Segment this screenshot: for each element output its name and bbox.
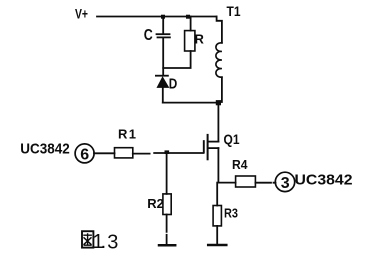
svg-text:R4: R4: [232, 157, 248, 172]
wire R3 bottom lead to ground: [216, 226, 218, 244]
svg-text:UC3842: UC3842: [295, 172, 353, 189]
resistor R4: [236, 176, 256, 187]
junction at R2 branch: [165, 150, 170, 154]
wire gate run after gap to Q1 gate: [154, 152, 203, 154]
resistor R3: [213, 206, 221, 226]
wire source node corner to R4: [218, 182, 235, 184]
junction on rail at capacitor C branch: [161, 15, 165, 19]
wire drain vertical from junction to Q1 drain tap: [217, 105, 219, 142]
resistor R: [185, 31, 195, 51]
svg-text:UC3842: UC3842: [20, 140, 70, 157]
wire T1 bottom lead: [221, 77, 223, 102]
label R: [195, 32, 205, 47]
wire capacitor bottom lead down to snubber node: [162, 38, 164, 75]
wire snubber resistor R top lead: [190, 17, 192, 31]
label UC3842 (left): [20, 140, 70, 157]
capacitor C: [157, 34, 170, 37]
label Q1: [224, 131, 240, 147]
svg-text:C: C: [144, 27, 153, 44]
wire from R4 to pin 3 circle: [255, 182, 275, 184]
svg-text:T1: T1: [227, 3, 241, 19]
junction on rail at snubber resistor R branch: [186, 15, 190, 19]
label R4: [232, 157, 248, 172]
wire snubber resistor R bottom lead, down then left to diode node: [163, 51, 190, 68]
pin 6 terminal circle of UC3842: [75, 144, 94, 163]
junction at transformer bottom / drain node: [216, 100, 221, 105]
wire R3 top lead from source node: [216, 183, 218, 206]
ground below R3: [208, 244, 226, 247]
wire R2 top lead: [166, 154, 168, 194]
wire diode bottom lead: [162, 88, 164, 103]
resistor R1: [115, 148, 133, 158]
transistor Q1 (MOSFET): [204, 135, 219, 159]
label caption 图1.3: [82, 231, 118, 253]
svg-text:R1: R1: [118, 127, 136, 142]
resistor R2: [163, 194, 171, 215]
label R3: [224, 205, 238, 220]
pin number 6: [80, 146, 89, 163]
svg-text:Q1: Q1: [224, 131, 240, 147]
wire capacitor top lead: [162, 17, 164, 34]
label D: [169, 75, 178, 92]
svg-text:.: .: [101, 231, 107, 253]
label R1: [118, 127, 136, 142]
diode D: [156, 76, 169, 88]
label UC3842 (right): [295, 172, 353, 189]
svg-text:V+: V+: [75, 6, 88, 22]
svg-text:3: 3: [281, 175, 290, 192]
pin 3 terminal circle of UC3842: [275, 172, 294, 191]
label R2: [147, 196, 164, 211]
svg-text:3: 3: [107, 231, 118, 253]
svg-text:R3: R3: [224, 205, 238, 220]
wire from pin 6 to R1: [94, 152, 115, 154]
ground below R2: [159, 244, 175, 247]
wire T1 top lead jog from rail: [217, 17, 222, 43]
svg-text:R2: R2: [147, 196, 164, 211]
label T1: [227, 3, 241, 19]
transformer T1 primary winding: [216, 43, 222, 77]
svg-text:6: 6: [80, 146, 89, 163]
wire top rail from V+ to T1: [97, 16, 217, 18]
svg-text:R: R: [195, 32, 205, 47]
wire snubber bottom horizontal to drain node: [163, 102, 219, 104]
label C: [144, 27, 153, 44]
pin number 3: [281, 175, 290, 192]
svg-text:D: D: [169, 75, 178, 92]
node V+ label: [75, 6, 88, 22]
wire R2 bottom lead to ground (with scan break): [166, 215, 168, 245]
wire from R1 toward gate (segment before gap): [133, 153, 150, 155]
wire source vertical down to source node corner: [217, 148, 219, 183]
